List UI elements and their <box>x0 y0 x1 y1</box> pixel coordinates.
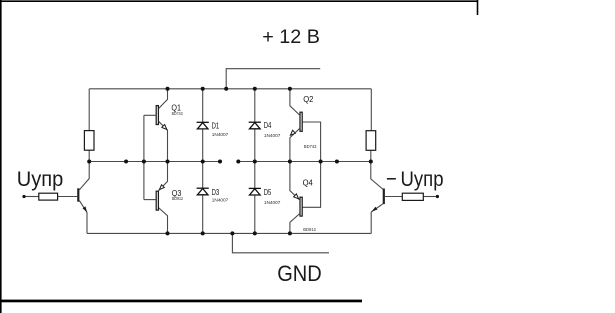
svg-text:D5: D5 <box>264 188 272 197</box>
svg-text:BD912: BD912 <box>303 227 316 233</box>
svg-text:Q2: Q2 <box>303 95 314 104</box>
svg-text:GND: GND <box>277 261 322 286</box>
svg-text:Q4: Q4 <box>303 178 314 187</box>
svg-text:D4: D4 <box>264 121 272 130</box>
svg-text:D3: D3 <box>212 188 220 197</box>
svg-text:BD743: BD743 <box>304 144 317 150</box>
svg-text:BD743: BD743 <box>172 111 183 117</box>
svg-text:− Uупр: − Uупр <box>386 166 444 191</box>
svg-text:1N4007: 1N4007 <box>212 197 229 203</box>
svg-text:1N4007: 1N4007 <box>264 133 281 139</box>
svg-text:BD912: BD912 <box>172 196 183 202</box>
svg-text:Uупр: Uупр <box>17 166 64 191</box>
svg-text:+ 12 В: + 12 В <box>262 26 320 48</box>
svg-text:1N4007: 1N4007 <box>264 200 281 206</box>
svg-text:D1: D1 <box>212 122 220 131</box>
svg-text:1N4007: 1N4007 <box>212 132 229 138</box>
